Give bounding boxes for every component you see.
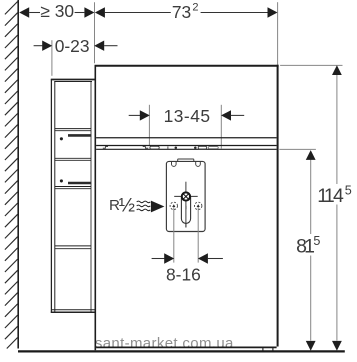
svg-text:73: 73 [172, 2, 191, 22]
svg-text:5: 5 [313, 234, 320, 248]
svg-text:≥ 30: ≥ 30 [40, 1, 74, 21]
svg-text:0-23: 0-23 [55, 36, 90, 56]
svg-text:5: 5 [345, 184, 352, 198]
svg-text:sant-market.com.ua: sant-market.com.ua [95, 335, 234, 352]
svg-text:8-16: 8-16 [166, 264, 201, 284]
svg-text:½: ½ [119, 194, 135, 216]
svg-text:2: 2 [192, 1, 198, 13]
svg-text:4: 4 [333, 185, 344, 207]
svg-text:13-45: 13-45 [164, 106, 211, 126]
